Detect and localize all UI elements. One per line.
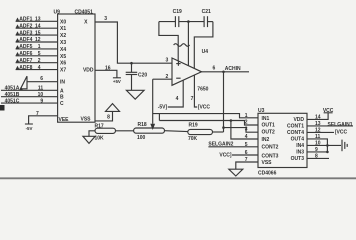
wire cap junction down to op-amp pin	[187, 22, 189, 66]
port arrow ADF4	[16, 38, 20, 41]
power arrow VSS	[106, 104, 120, 112]
svg-text:13: 13	[315, 121, 321, 127]
op-amp minus sign	[176, 77, 180, 79]
wire V_b to U3 pin 4	[231, 121, 258, 140]
wire C19 to C21	[179, 21, 204, 23]
wire output down to resistor chain	[223, 72, 225, 132]
wire VEE pin 7	[29, 116, 58, 124]
svg-text:4: 4	[38, 65, 41, 71]
svg-text:IN2: IN2	[262, 137, 270, 143]
svg-text:VCC]: VCC]	[219, 152, 232, 158]
wire ADF1 to X0	[16, 20, 58, 22]
svg-text:C21: C21	[202, 9, 211, 15]
svg-text:U3: U3	[258, 108, 265, 114]
port arrow ADF8	[16, 66, 20, 69]
svg-text:ADF4: ADF4	[19, 37, 32, 43]
svg-text:7: 7	[36, 111, 39, 117]
resistor R17	[95, 128, 116, 133]
svg-text:1: 1	[38, 44, 41, 50]
wire op-amp output ACHIN	[202, 71, 250, 73]
svg-text:ADF5: ADF5	[19, 44, 32, 50]
svg-text:X4: X4	[60, 47, 66, 53]
svg-text:R18: R18	[138, 122, 147, 128]
wire C21 right down to op-amp pin	[194, 22, 213, 69]
wire op-amp pin 4 to -5V	[168, 80, 183, 107]
svg-text:IN3: IN3	[296, 150, 304, 156]
node H3 junction	[222, 126, 225, 129]
svg-text:VEE: VEE	[59, 117, 70, 123]
IC U3 CD4066 box	[258, 113, 307, 167]
svg-text:X2: X2	[60, 33, 66, 39]
wire R17 to R18	[116, 130, 134, 132]
wire VCC to pin 6	[232, 154, 258, 156]
svg-text:1: 1	[245, 113, 248, 119]
svg-text:SELGAIN2: SELGAIN2	[208, 142, 233, 148]
wire R19 right to node	[213, 131, 224, 133]
wire H1 feedback to U3 pin 1	[153, 114, 258, 118]
svg-text:CONT1: CONT1	[287, 124, 304, 130]
svg-text:8: 8	[107, 114, 110, 120]
svg-text:7: 7	[245, 157, 248, 163]
svg-text:R17: R17	[95, 124, 104, 130]
svg-text:4051B: 4051B	[5, 92, 20, 98]
node pin9 junction	[326, 151, 329, 154]
ground triangle C20	[126, 90, 144, 99]
svg-text:100: 100	[137, 135, 146, 141]
svg-text:13: 13	[35, 17, 41, 23]
svg-text:12: 12	[35, 37, 41, 43]
svg-text:OUT4: OUT4	[291, 137, 305, 143]
wire ADF8 to X7	[16, 69, 58, 71]
svg-text:X3: X3	[60, 40, 66, 46]
node C20 junction	[130, 62, 133, 65]
port arrow ADF5	[16, 45, 20, 48]
scan artifact bottom line	[0, 177, 356, 179]
svg-text:70K: 70K	[188, 136, 198, 142]
svg-text:R19: R19	[189, 122, 198, 128]
svg-text:-5V]: -5V]	[158, 104, 168, 110]
port arrow ADF7	[16, 59, 20, 62]
wire op-amp pin 7 to VCC	[194, 75, 197, 107]
arrow feedback tap on R18	[150, 124, 155, 130]
wire pin 12 VCC	[307, 131, 334, 133]
ground triangle R17	[83, 136, 95, 143]
svg-text:10: 10	[38, 92, 44, 98]
svg-text:16: 16	[105, 65, 111, 71]
svg-text:9: 9	[40, 98, 43, 104]
resistor R19	[188, 129, 213, 134]
port arrow 4051A	[19, 87, 22, 90]
svg-text:X6: X6	[60, 61, 66, 67]
port arrow ADF3	[16, 31, 20, 34]
wire R17 left to ground	[89, 131, 95, 137]
svg-text:12: 12	[315, 128, 321, 134]
svg-text:U4: U4	[202, 49, 209, 55]
capacitor C21 plates	[203, 16, 205, 27]
svg-text:14: 14	[315, 115, 321, 121]
wire inverting input pin 2	[153, 78, 172, 80]
svg-text:CONT2: CONT2	[262, 145, 279, 151]
IC U9 CD4051 box	[58, 14, 95, 122]
resistor R18	[134, 128, 165, 133]
ground bars sideways	[341, 140, 343, 152]
svg-text:4: 4	[245, 134, 248, 140]
squiggle pin marks	[174, 44, 190, 47]
wire feedback vertical	[152, 79, 154, 124]
wire X pin 3 to op-amp + input	[95, 22, 172, 63]
svg-text:X0: X0	[60, 19, 66, 25]
node H2 junction	[230, 119, 233, 122]
wire R18 to R19	[165, 130, 188, 133]
power bar -5V	[25, 123, 33, 125]
wire H3 to U3 pin 3	[224, 128, 259, 133]
svg-text:3: 3	[166, 57, 169, 63]
svg-text:ACHIN: ACHIN	[225, 66, 241, 72]
wire ADF4 to X3	[16, 41, 58, 43]
svg-text:IN4: IN4	[296, 143, 304, 149]
svg-text:ADF2: ADF2	[19, 23, 32, 29]
wire ADF6 to X5	[16, 55, 58, 57]
svg-text:8: 8	[315, 154, 318, 160]
svg-text:6: 6	[213, 66, 216, 72]
svg-text:ADF6: ADF6	[19, 51, 32, 57]
port arrow ADF6	[16, 52, 20, 55]
svg-text:C19: C19	[173, 9, 182, 15]
svg-text:CONT3: CONT3	[262, 153, 279, 159]
svg-text:X1: X1	[60, 26, 66, 32]
port arrow ADF2	[16, 24, 20, 27]
node output junction	[222, 71, 225, 74]
wire pin 13 SELGAIN1	[307, 125, 353, 127]
svg-text:6: 6	[245, 150, 248, 156]
svg-text:VDD: VDD	[83, 67, 94, 73]
svg-text:[VCC: [VCC	[335, 130, 348, 136]
wire 4051B to B pin 10	[1, 96, 58, 98]
wire VDD pin 14 to VCC	[307, 113, 328, 120]
capacitor C19 plates	[174, 16, 176, 27]
svg-text:CONT4: CONT4	[287, 130, 304, 136]
wire C21 right	[208, 21, 213, 23]
svg-text:2: 2	[166, 74, 169, 80]
svg-text:OUT2: OUT2	[262, 129, 276, 135]
wire C19 left down to op-amp pin	[159, 22, 178, 61]
svg-text:ADF8: ADF8	[19, 65, 32, 71]
wire 4051A to A pin 11	[1, 89, 58, 91]
wire pin 10	[307, 144, 341, 146]
svg-text:7650: 7650	[197, 87, 208, 93]
scan artifact left blob	[0, 105, 5, 111]
wire SELGAIN2 to pin 5	[208, 146, 258, 148]
wire pin 9	[307, 151, 327, 153]
wire VSS pin 8	[95, 111, 113, 121]
svg-text:VCC: VCC	[323, 108, 334, 114]
capacitor C19 top wire	[159, 21, 176, 23]
svg-text:2: 2	[245, 120, 248, 126]
svg-text:4051C: 4051C	[5, 99, 20, 105]
svg-text:11: 11	[315, 134, 321, 140]
svg-text:14: 14	[35, 23, 41, 29]
wire ADF3 to X2	[16, 34, 58, 36]
wire jog H1 to H2	[158, 114, 160, 121]
wire INH pin 6	[27, 81, 58, 83]
svg-text:7: 7	[191, 96, 194, 102]
wire ADF5 to X4	[16, 48, 58, 50]
capacitor C20	[131, 63, 133, 72]
wire pin 11	[307, 139, 327, 152]
svg-text:IN: IN	[60, 80, 65, 86]
wire VSS pin 7 to ground	[236, 162, 258, 169]
svg-text:10K: 10K	[95, 135, 105, 141]
svg-text:A: A	[60, 88, 64, 94]
svg-text:-5V: -5V	[26, 126, 33, 131]
wire ADF2 to X1	[16, 27, 58, 29]
svg-text:5: 5	[38, 51, 41, 57]
power bar +5V	[113, 77, 121, 79]
svg-text:VSS: VSS	[262, 160, 273, 166]
svg-text:ADF7: ADF7	[19, 58, 32, 64]
svg-text:C20: C20	[138, 72, 147, 78]
wire 4051C to C pin 9	[1, 102, 58, 104]
svg-text:11: 11	[38, 86, 44, 92]
ground triangle INH pin 6	[21, 76, 28, 89]
svg-text:+5V: +5V	[113, 79, 121, 84]
svg-text:4051A: 4051A	[5, 86, 20, 92]
wire ADF7 to X6	[16, 62, 58, 64]
svg-text:9: 9	[315, 147, 318, 153]
svg-text:CD4051: CD4051	[75, 9, 94, 15]
svg-text:CD4066: CD4066	[258, 171, 277, 177]
wire H2 to U3 pin 2	[159, 121, 258, 126]
svg-text:SELGAIN1: SELGAIN1	[328, 122, 353, 128]
wire pin 8	[307, 157, 329, 159]
svg-text:ADF1: ADF1	[19, 17, 32, 23]
svg-text:10: 10	[315, 141, 321, 147]
svg-text:5: 5	[245, 142, 248, 148]
svg-text:VSS: VSS	[80, 116, 91, 122]
svg-text:C: C	[60, 101, 64, 107]
svg-text:IN1: IN1	[262, 116, 270, 122]
port arrow ADF1	[16, 18, 20, 21]
node pin10 junction	[326, 144, 329, 147]
svg-text:[VCC: [VCC	[198, 104, 211, 110]
svg-text:B: B	[60, 95, 64, 101]
svg-text:OUT3: OUT3	[291, 156, 305, 162]
power bar VCC	[324, 112, 333, 114]
wire VDD pin 16	[95, 70, 117, 78]
svg-text:U9: U9	[54, 9, 61, 15]
node cap junction	[187, 20, 190, 23]
svg-text:OUT1: OUT1	[262, 123, 276, 129]
op-amp plus sign	[176, 63, 180, 65]
svg-text:3: 3	[245, 127, 248, 133]
svg-text:ADF3: ADF3	[19, 30, 32, 36]
svg-text:3: 3	[104, 16, 107, 22]
svg-text:15: 15	[35, 30, 41, 36]
svg-text:X7: X7	[60, 68, 66, 74]
svg-text:2: 2	[38, 58, 41, 64]
svg-text:VDD: VDD	[293, 117, 304, 123]
svg-text:6: 6	[40, 76, 43, 82]
svg-text:X5: X5	[60, 54, 66, 60]
svg-text:4: 4	[176, 96, 179, 102]
op-amp U4 triangle	[172, 58, 202, 85]
svg-text:X: X	[84, 19, 88, 25]
ground triangle U3	[229, 169, 243, 176]
